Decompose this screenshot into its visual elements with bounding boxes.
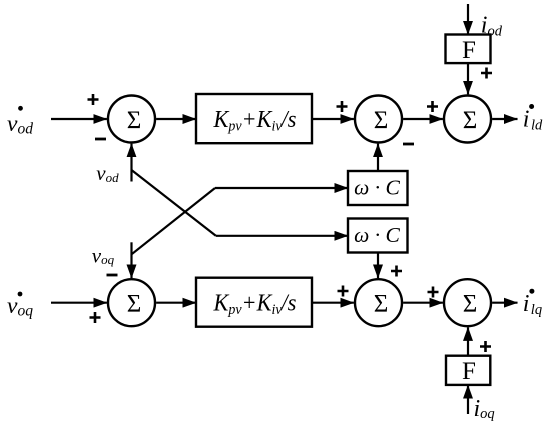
wire i_od input — [467, 4, 469, 35]
plus sign at summing junction S5 decoupling input — [391, 266, 402, 277]
wire v_oq horizontal into block G3 — [215, 187, 348, 189]
plus sign at summing junction S3 input — [427, 101, 438, 112]
svg-text:Σ: Σ — [463, 291, 478, 318]
wire G1 to summing junction S2 — [312, 118, 354, 120]
wire G3 to summing junction S2 — [377, 144, 379, 171]
wire G4 to summing junction S5 — [377, 253, 379, 279]
svg-text:ioq: ioq — [474, 396, 495, 422]
plus sign at summing junction S3 feedforward input — [481, 68, 492, 79]
svg-text:Σ: Σ — [127, 107, 142, 134]
node i_lq* output label — [523, 289, 542, 318]
node v_oq* input label — [7, 292, 33, 320]
plus sign at summing junction S5 input — [338, 286, 349, 297]
block G1 Kpv+Kiv/s (d-axis PI controller) — [196, 94, 312, 143]
plus sign at summing junction S4 input — [90, 312, 101, 323]
summing junction S2 — [355, 96, 402, 143]
wire v_oq* input arrow — [51, 302, 107, 304]
svg-text:Σ: Σ — [463, 107, 478, 134]
minus sign at summing junction S2 decoupling input — [403, 143, 414, 146]
svg-text:F: F — [462, 358, 476, 385]
block G3 omega-C (top decoupling gain) — [348, 171, 408, 205]
wire S3 to output i_ld* — [492, 118, 517, 120]
summing junction S4 — [108, 279, 155, 326]
wire F2 to summing junction S6 — [467, 327, 469, 355]
node v_od* input label — [7, 106, 33, 137]
summing junction S3 — [444, 96, 491, 143]
block F2 (feedforward gain, q-axis) — [446, 356, 490, 385]
svg-text:ω · C: ω · C — [354, 176, 400, 200]
wire S4 to PI block G2 — [156, 302, 196, 304]
plus sign at summing junction S1 input — [88, 94, 99, 105]
svg-text:Σ: Σ — [374, 107, 389, 134]
summing junction S6 — [444, 279, 491, 326]
wire v_od horizontal into block G4 — [216, 235, 348, 237]
wire S5 to summing junction S6 — [403, 302, 443, 304]
wire G2 to summing junction S5 — [312, 302, 354, 304]
svg-text:Σ: Σ — [127, 291, 142, 318]
svg-text:vod: vod — [7, 111, 33, 137]
wire F1 to summing junction S3 — [467, 63, 469, 94]
summing junction S5 — [355, 279, 402, 326]
plus sign at summing junction S2 input — [337, 101, 348, 112]
wire S2 to summing junction S3 — [403, 118, 443, 120]
node i_ld* output label — [523, 104, 543, 133]
svg-text:voq: voq — [7, 293, 33, 319]
svg-text:F: F — [462, 37, 476, 64]
minus sign at summing junction S4 feedback input — [107, 274, 118, 277]
block G4 omega-C (bottom decoupling gain) — [348, 219, 408, 253]
svg-text:Kpv+Kiv/s: Kpv+Kiv/s — [213, 106, 297, 134]
wire v_od* input arrow — [51, 118, 107, 120]
wire S6 to output i_lq* — [492, 302, 517, 304]
wire S1 to PI block G1 — [156, 118, 196, 120]
block G2 Kpv+Kiv/s (q-axis PI controller) — [196, 278, 312, 327]
svg-text:ld: ld — [531, 117, 543, 133]
plus sign at summing junction S6 feedforward input — [480, 341, 491, 352]
svg-text:Kpv+Kiv/s: Kpv+Kiv/s — [213, 290, 297, 318]
wire v_oq feedback into S4 — [130, 242, 132, 278]
svg-text:voq: voq — [92, 243, 115, 267]
wire v_od feedback into S1 — [130, 144, 132, 182]
plus sign at summing junction S6 input — [428, 287, 439, 298]
svg-text:vod: vod — [96, 161, 119, 185]
wire v_oq diagonal to cross-coupling — [132, 188, 216, 254]
wire i_oq input — [467, 385, 469, 414]
svg-text:i: i — [523, 107, 530, 133]
svg-text:ω · C: ω · C — [354, 223, 400, 247]
svg-text:i: i — [523, 291, 530, 317]
block F1 (feedforward gain, d-axis) — [446, 35, 491, 65]
wire v_od diagonal to cross-coupling — [132, 170, 216, 236]
summing junction S1 — [108, 96, 155, 143]
svg-text:lq: lq — [531, 302, 542, 318]
minus sign at summing junction S1 feedback input — [95, 138, 106, 141]
svg-text:Σ: Σ — [374, 291, 389, 318]
